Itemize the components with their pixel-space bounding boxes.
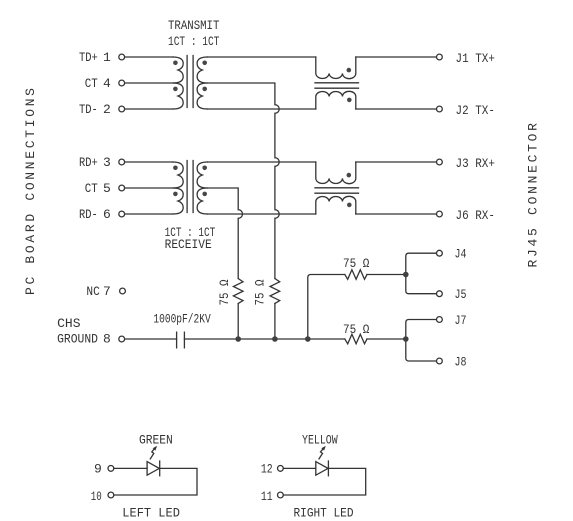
svg-text:J2 TX-: J2 TX- bbox=[456, 103, 495, 118]
pin 8 terminal (CHS ground) bbox=[119, 336, 125, 342]
wire node to J8 bbox=[406, 339, 437, 361]
svg-text:3: 3 bbox=[103, 155, 111, 170]
wire R2 bottom to ground bus bbox=[274, 304, 276, 340]
svg-text:YELLOW: YELLOW bbox=[302, 433, 338, 448]
pin 3 terminal bbox=[119, 159, 125, 165]
common-mode choke L2 top winding (RX+) bbox=[316, 162, 356, 184]
svg-text:CT: CT bbox=[85, 76, 98, 91]
capacitor C1 1000pF/2KV plates bbox=[177, 332, 185, 348]
transformer T2 secondary polarity dot (CT half) bbox=[202, 192, 207, 197]
LED D2 emission arrow bbox=[319, 448, 324, 459]
ground bus wire from C1 to resistor R4 bbox=[184, 338, 344, 340]
svg-text:J5: J5 bbox=[455, 287, 467, 302]
J5 terminal bbox=[437, 291, 443, 297]
wire pin4 to T1 primary CT bbox=[125, 82, 175, 84]
wire choke L2 to J6 bbox=[356, 213, 437, 215]
svg-text:5: 5 bbox=[103, 181, 111, 196]
transformer T2 secondary winding bbox=[197, 162, 207, 214]
J2 terminal bbox=[437, 106, 443, 112]
svg-text:CHS: CHS bbox=[57, 316, 81, 331]
svg-text:75 Ω: 75 Ω bbox=[217, 279, 232, 305]
wire R3 to J4/J5 node bbox=[367, 274, 406, 276]
wire node to J5 bbox=[406, 275, 437, 294]
pin 6 terminal bbox=[119, 211, 125, 217]
common-mode choke L1 top winding (TX+) bbox=[316, 57, 356, 79]
svg-text:6: 6 bbox=[103, 207, 111, 222]
svg-text:J7: J7 bbox=[455, 313, 467, 328]
svg-text:RJ45 CONNECTOR: RJ45 CONNECTOR bbox=[526, 123, 541, 268]
wire pin6 to T2 primary bottom bbox=[125, 213, 173, 215]
pin 2 terminal bbox=[119, 106, 125, 112]
transformer T2 primary polarity dot (pin 3 half) bbox=[173, 166, 178, 171]
choke L2 top winding polarity dot bbox=[347, 173, 352, 178]
svg-text:CT: CT bbox=[85, 181, 98, 196]
wire R1 bottom to ground bus bbox=[237, 304, 239, 340]
svg-text:RECEIVE: RECEIVE bbox=[165, 237, 212, 252]
junction dot node J7/J8 bbox=[403, 336, 409, 342]
transformer T2 (receive) primary winding bbox=[173, 162, 183, 214]
svg-text:TD-: TD- bbox=[79, 102, 98, 117]
pin 5 terminal bbox=[119, 185, 125, 191]
transformer T1 (transmit) primary winding bbox=[173, 57, 183, 109]
svg-text:1: 1 bbox=[103, 50, 111, 65]
transformer T1 primary polarity dot (pin 1 half) bbox=[173, 61, 178, 66]
J7 terminal bbox=[437, 317, 443, 323]
svg-text:NC: NC bbox=[86, 284, 100, 299]
choke L1 bottom winding polarity dot bbox=[347, 98, 352, 103]
transformer T1 secondary polarity dot (CT half) bbox=[202, 87, 207, 92]
pin 11 terminal bbox=[278, 492, 284, 498]
pin 1 terminal bbox=[119, 54, 125, 60]
transformer T1 core bbox=[187, 56, 193, 108]
choke L2 bottom winding (RX-) bbox=[316, 196, 356, 214]
junction dot node J4/J5 bbox=[403, 272, 409, 278]
svg-text:2: 2 bbox=[103, 102, 111, 117]
J6 terminal bbox=[437, 211, 443, 217]
svg-text:J1 TX+: J1 TX+ bbox=[456, 51, 496, 66]
pin 12 terminal bbox=[278, 466, 284, 472]
resistor R2 75 ohm (vertical, on T1 CT leg) bbox=[270, 279, 280, 304]
svg-text:75 Ω: 75 Ω bbox=[343, 256, 370, 271]
resistor R4 75 ohm (horizontal, on ground bus) bbox=[345, 334, 367, 344]
wire LED D1 to pin10 loop bbox=[114, 468, 197, 495]
wire T1 secondary CT right then down to ground bus (with hops) bbox=[207, 83, 279, 279]
resistor R1 75 ohm (vertical, on T2 CT leg) bbox=[233, 279, 243, 304]
svg-text:RD+: RD+ bbox=[79, 155, 98, 170]
svg-text:12: 12 bbox=[261, 462, 273, 477]
wire T1 secondary top to choke L1 bbox=[207, 56, 315, 58]
LED D2 cathode bar bbox=[327, 461, 329, 476]
wire ground bus up to resistor R3 bbox=[308, 275, 345, 340]
choke L1 core bbox=[315, 83, 359, 88]
LED D2 (yellow) triangle bbox=[316, 462, 328, 476]
wire node to J7 bbox=[406, 320, 437, 340]
choke L2 bottom winding polarity dot bbox=[347, 203, 352, 208]
svg-text:J6 RX-: J6 RX- bbox=[456, 208, 495, 223]
wire pin8 (CHS ground) to capacitor C1 bbox=[125, 338, 177, 340]
transformer T2 secondary polarity dot (top half) bbox=[202, 166, 207, 171]
pin 9 terminal bbox=[108, 466, 114, 472]
transformer T1 primary polarity dot (CT half) bbox=[173, 87, 178, 92]
transformer T2 primary polarity dot (CT half) bbox=[173, 192, 178, 197]
svg-text:75 Ω: 75 Ω bbox=[343, 322, 370, 337]
svg-text:4: 4 bbox=[103, 76, 111, 91]
junction dot on ground bus at R3 branch bbox=[305, 336, 311, 342]
LED D1 emission arrow bbox=[150, 448, 155, 459]
wire choke L1 to J1 bbox=[356, 56, 437, 58]
choke L1 bottom winding (TX-) bbox=[316, 91, 356, 109]
choke L2 core bbox=[315, 188, 359, 193]
wire T2 secondary top to choke L2 bbox=[207, 161, 315, 163]
svg-text:GROUND: GROUND bbox=[57, 332, 98, 347]
svg-text:8: 8 bbox=[103, 332, 111, 347]
choke L1 top winding polarity dot bbox=[347, 68, 352, 73]
J3 terminal bbox=[437, 159, 443, 165]
J1 terminal bbox=[437, 54, 443, 60]
svg-text:PC BOARD CONNECTIONS: PC BOARD CONNECTIONS bbox=[23, 88, 38, 295]
wire pin3 to T2 primary top bbox=[125, 161, 173, 163]
wire LED D2 to pin11 loop bbox=[283, 468, 365, 495]
svg-text:TRANSMIT: TRANSMIT bbox=[168, 18, 220, 33]
wire pin12 to LED D2 bbox=[283, 467, 316, 469]
svg-text:1000pF/2KV: 1000pF/2KV bbox=[153, 312, 210, 327]
J4 terminal bbox=[437, 250, 443, 256]
svg-text:J3 RX+: J3 RX+ bbox=[456, 156, 496, 171]
pin 10 terminal bbox=[108, 492, 114, 498]
svg-text:75 Ω: 75 Ω bbox=[253, 279, 268, 305]
svg-text:J8: J8 bbox=[455, 355, 467, 370]
junction dot on ground bus at R1 bbox=[235, 336, 241, 342]
wire choke L2 to J3 bbox=[356, 161, 437, 163]
wire T2 secondary CT right then down to ground bus (with hop) bbox=[207, 188, 242, 279]
wire pin2 to T1 primary bottom bbox=[125, 108, 173, 110]
svg-text:10: 10 bbox=[91, 489, 102, 504]
wire pin5 to T2 primary CT bbox=[125, 187, 175, 189]
LED D1 (green) triangle bbox=[147, 462, 159, 476]
wire T2 secondary bottom to choke L2 bbox=[207, 213, 315, 215]
wire node to J4 bbox=[406, 253, 437, 274]
svg-text:TD+: TD+ bbox=[79, 50, 98, 65]
svg-text:RD-: RD- bbox=[79, 207, 98, 222]
J8 terminal bbox=[437, 358, 443, 364]
svg-text:9: 9 bbox=[94, 462, 102, 477]
svg-text:J4: J4 bbox=[455, 247, 467, 262]
wire pin9 to LED D1 bbox=[114, 467, 147, 469]
transformer T1 secondary polarity dot (top half) bbox=[202, 61, 207, 66]
junction dot on ground bus at R2 bbox=[272, 336, 278, 342]
svg-text:1CT : 1CT: 1CT : 1CT bbox=[168, 34, 220, 49]
svg-text:11: 11 bbox=[261, 489, 273, 504]
pin 4 terminal bbox=[119, 80, 125, 86]
resistor R3 75 ohm (horizontal, to J4/J5 node) bbox=[345, 270, 367, 280]
wire choke L1 to J2 bbox=[356, 108, 437, 110]
svg-text:GREEN: GREEN bbox=[139, 433, 173, 448]
transformer T1 secondary winding bbox=[197, 57, 207, 109]
wire T1 secondary bottom to choke L1 bbox=[207, 108, 315, 110]
ground bus wire from R4 to J7/J8 node bbox=[367, 338, 406, 340]
svg-text:7: 7 bbox=[103, 284, 111, 299]
svg-text:LEFT LED: LEFT LED bbox=[122, 506, 180, 521]
LED D1 cathode bar bbox=[159, 461, 161, 476]
wire pin1 to T1 primary top bbox=[125, 56, 173, 58]
transformer T2 core bbox=[187, 161, 193, 213]
pin 7 terminal (NC) bbox=[120, 288, 126, 294]
svg-text:RIGHT LED: RIGHT LED bbox=[294, 506, 354, 521]
